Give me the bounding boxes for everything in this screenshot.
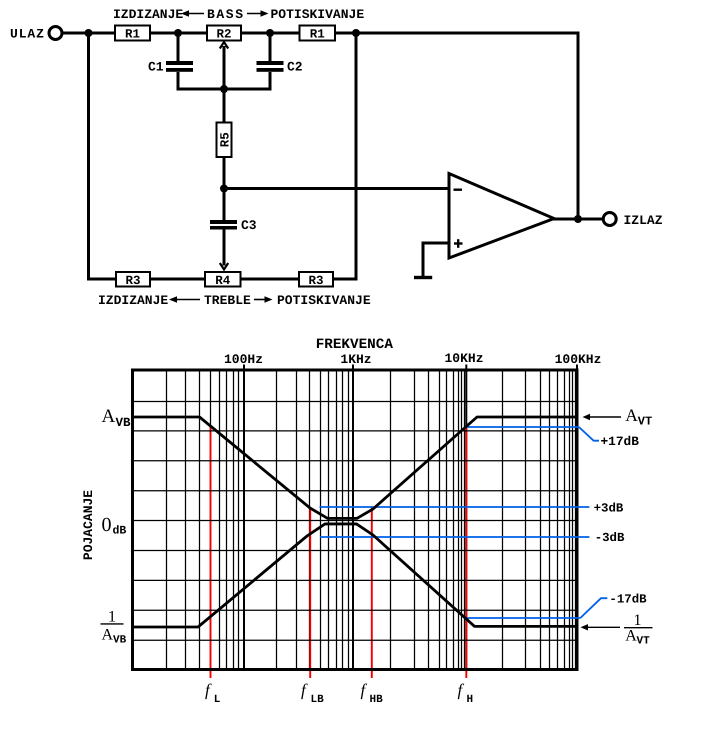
svg-text:dB: dB xyxy=(113,525,127,538)
wire C1 top lead xyxy=(177,33,180,61)
svg-text:R4: R4 xyxy=(215,274,231,288)
svg-text:VB: VB xyxy=(113,635,127,647)
level line -3dB xyxy=(320,536,589,538)
svg-text:R5: R5 xyxy=(219,132,233,147)
svg-text:f: f xyxy=(361,681,368,700)
svg-text:VB: VB xyxy=(116,416,132,430)
tick label 100KHz xyxy=(555,352,602,367)
junction input node xyxy=(85,29,93,37)
label ULAZ xyxy=(10,27,45,42)
svg-text:+3dB: +3dB xyxy=(594,501,624,515)
curve full-cut response xyxy=(134,524,576,627)
label IZDIZANJE (bass boost) xyxy=(113,7,183,22)
op-amp U1 xyxy=(449,174,554,259)
svg-text:VT: VT xyxy=(638,415,652,429)
label 1/A_VB xyxy=(101,609,127,647)
svg-text:HB: HB xyxy=(370,694,384,706)
label +17dB xyxy=(601,434,640,449)
junction R1-R2 top xyxy=(174,29,182,37)
potentiometer R2 wiper arrow xyxy=(220,42,228,49)
svg-text:A: A xyxy=(625,405,638,425)
svg-text:A: A xyxy=(102,627,114,644)
marker line f_L xyxy=(210,426,212,678)
curve full-boost response xyxy=(134,417,576,518)
svg-text:A: A xyxy=(625,628,637,645)
svg-text:C1: C1 xyxy=(148,60,164,75)
wire top rail xyxy=(62,32,578,35)
arrow to 1/A_VT xyxy=(581,624,621,630)
label f_L xyxy=(205,681,221,707)
wire C2 bottom lead xyxy=(269,72,272,91)
svg-text:R2: R2 xyxy=(216,28,231,42)
grid horizontal lines xyxy=(133,402,578,641)
marker line f_LB xyxy=(309,508,311,679)
label A_VT xyxy=(625,405,652,429)
svg-text:C2: C2 xyxy=(287,60,303,75)
svg-text:POJACANJE: POJACANJE xyxy=(81,490,96,560)
arrow left (bass) xyxy=(181,10,204,16)
capacitor C3 xyxy=(210,218,257,233)
wire left rail xyxy=(87,32,90,281)
label 1/A_VT xyxy=(624,612,653,648)
arrow to A_VT xyxy=(583,414,622,420)
label IZDIZANJE (treble boost) xyxy=(98,293,168,308)
svg-text:0: 0 xyxy=(102,514,112,536)
grid vertical log lines xyxy=(167,370,576,671)
arrow right (treble) xyxy=(254,296,273,302)
label POTISKIVANJE (treble cut) xyxy=(277,293,371,308)
label A_VB xyxy=(102,406,132,430)
arrow left (treble) xyxy=(169,296,200,302)
svg-text:f: f xyxy=(301,681,308,700)
svg-text:IZLAZ: IZLAZ xyxy=(624,213,663,228)
tick label 10KHz xyxy=(444,351,483,366)
svg-text:100Hz: 100Hz xyxy=(224,352,263,367)
svg-text:1KHz: 1KHz xyxy=(340,352,371,367)
terminal ULAZ xyxy=(49,27,62,40)
level line +17dB xyxy=(467,427,599,441)
capacitor C2 xyxy=(257,60,303,75)
svg-text:+17dB: +17dB xyxy=(601,434,640,449)
wire C2 top lead xyxy=(269,33,272,61)
label TREBLE xyxy=(204,293,251,308)
chart border xyxy=(133,370,578,670)
axis title POJACANJE xyxy=(81,490,96,560)
wire non-inverting to ground xyxy=(423,242,450,278)
junction bass wiper rail xyxy=(220,85,228,93)
wire C1 bottom lead xyxy=(177,72,180,91)
resistor R3 (right) xyxy=(299,272,333,288)
label POTISKIVANJE (bass cut) xyxy=(271,7,365,22)
svg-text:IZDIZANJE: IZDIZANJE xyxy=(113,7,183,22)
junction output feedback xyxy=(574,215,582,223)
resistor R1 (right) xyxy=(300,26,336,42)
svg-text:R3: R3 xyxy=(308,274,323,288)
potentiometer R4 body xyxy=(205,272,241,288)
svg-text:VT: VT xyxy=(637,636,651,648)
svg-text:100KHz: 100KHz xyxy=(555,352,602,367)
level line +3dB xyxy=(320,506,590,508)
label +3dB xyxy=(594,501,624,515)
svg-text:L: L xyxy=(214,694,221,706)
tick label 100Hz xyxy=(224,352,263,367)
resistor R5 xyxy=(217,123,233,158)
resistor R3 (left) xyxy=(116,272,150,288)
svg-text:FREKVENCA: FREKVENCA xyxy=(316,337,394,353)
svg-text:R1: R1 xyxy=(310,28,325,42)
svg-text:LB: LB xyxy=(311,694,325,706)
svg-text:-17dB: -17dB xyxy=(609,592,647,606)
wire inverting input xyxy=(224,187,450,190)
label 0dB xyxy=(102,514,127,538)
wire capacitor link rail xyxy=(177,88,272,91)
tick label 1KHz xyxy=(340,352,371,367)
svg-text:A: A xyxy=(102,406,116,427)
svg-text:-3dB: -3dB xyxy=(595,531,625,545)
label f_H xyxy=(458,681,474,707)
wire output xyxy=(553,218,604,221)
node A junction xyxy=(220,185,228,193)
svg-text:H: H xyxy=(467,694,474,706)
resistor R1 (left) xyxy=(115,26,150,42)
label -3dB xyxy=(595,531,625,545)
grid decade ticks xyxy=(244,365,577,371)
svg-text:C3: C3 xyxy=(241,218,257,233)
label f_LB xyxy=(301,681,324,707)
potentiometer R4 wiper arrow xyxy=(220,263,228,270)
junction R2-R1 top xyxy=(266,29,274,37)
svg-text:BASS: BASS xyxy=(207,7,245,22)
wire bass wiper xyxy=(223,46,226,123)
capacitor C1 xyxy=(148,60,193,75)
wire R5 to node A xyxy=(223,157,226,220)
marker line f_HB xyxy=(371,508,373,679)
svg-text:ULAZ: ULAZ xyxy=(10,27,45,42)
svg-text:POTISKIVANJE: POTISKIVANJE xyxy=(277,293,371,308)
label BASS xyxy=(207,7,245,22)
terminal IZLAZ xyxy=(603,213,616,226)
svg-text:R1: R1 xyxy=(125,28,140,42)
wire C3 to R4 wiper xyxy=(223,230,226,266)
svg-text:f: f xyxy=(458,681,465,700)
svg-text:R3: R3 xyxy=(125,274,140,288)
svg-text:TREBLE: TREBLE xyxy=(204,293,251,308)
ground xyxy=(414,276,432,279)
arrow right (bass) xyxy=(247,10,269,16)
marker line f_H xyxy=(465,427,467,678)
axis title FREKVENCA xyxy=(316,337,394,353)
svg-text:POTISKIVANJE: POTISKIVANJE xyxy=(271,7,365,22)
wire feedback drop xyxy=(577,32,580,220)
level line -17dB xyxy=(467,598,608,618)
label f_HB xyxy=(361,681,384,707)
svg-text:10KHz: 10KHz xyxy=(444,351,483,366)
svg-text:1: 1 xyxy=(634,612,642,629)
svg-text:f: f xyxy=(205,681,212,700)
junction top right xyxy=(352,29,360,37)
svg-text:1: 1 xyxy=(108,609,116,626)
wire right branch xyxy=(355,32,358,281)
svg-text:IZDIZANJE: IZDIZANJE xyxy=(98,293,168,308)
potentiometer R2 body xyxy=(207,26,241,42)
wire bottom rail xyxy=(87,278,358,281)
label -17dB xyxy=(609,592,647,606)
label IZLAZ xyxy=(624,213,663,228)
